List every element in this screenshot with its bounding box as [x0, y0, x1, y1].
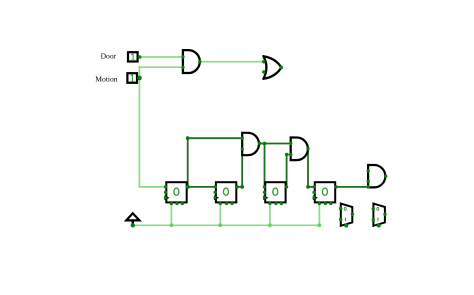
node AND4 out — [384, 175, 387, 178]
multiplexer MUX2 — [373, 204, 385, 226]
node AND4 in2 — [367, 180, 370, 183]
node FF4 Q — [335, 185, 338, 188]
bus junction dots — [170, 223, 322, 227]
svg-text:Door: Door — [101, 52, 117, 61]
wire FF2 Q stub — [237, 186, 242, 188]
wire junction down to FF3 D — [264, 144, 266, 188]
multiplexer MUX1 — [341, 204, 353, 226]
node OR1 out — [280, 66, 283, 69]
or gate U2 — [263, 56, 281, 79]
flip-flop pin dots — [164, 185, 333, 205]
flip-flop FF1 — [164, 182, 186, 202]
wire Motion corner to AND1 input2 — [139, 66, 183, 68]
wire FF4 Q to AND4 — [336, 186, 368, 188]
FF1 pins — [164, 185, 167, 188]
node AND3 out — [306, 147, 309, 150]
node FF2 Q corner — [240, 185, 244, 189]
node AND4 in1 — [367, 169, 370, 172]
wire power bus bottom — [133, 224, 320, 226]
flip-flop FF2 — [214, 182, 236, 202]
wire Door pin to AND1 input1 — [139, 56, 184, 58]
and gate U5 (C) — [368, 165, 385, 187]
node dots — [131, 55, 388, 227]
power V1 — [126, 213, 139, 224]
input pin Door — [128, 52, 138, 61]
node junction AND2out-FF3D — [263, 142, 267, 146]
wire AND1 output to OR1 input — [200, 61, 264, 63]
wire to FF1 D input — [139, 186, 166, 188]
FF2 pins — [214, 185, 217, 188]
node AND3 in2 corner — [285, 153, 288, 156]
node AND3 in1 — [289, 142, 292, 145]
wire vertical Motion bus down — [138, 67, 140, 187]
flip-flop FF3 — [263, 182, 285, 202]
and gate U1 top — [183, 50, 200, 73]
node AND1 in1 — [181, 55, 184, 58]
wire AND3 input2 stub — [287, 154, 291, 156]
node AND1 in2 — [181, 66, 184, 69]
node OR1 in2 — [262, 70, 265, 73]
node wire end at AND4 — [366, 185, 370, 189]
flip-flop FF4 — [313, 182, 335, 202]
node power out — [131, 223, 135, 227]
wire FF3 Q up — [286, 155, 288, 188]
FF3 pins — [263, 185, 266, 188]
node AND2 in1 — [241, 137, 244, 140]
wire FF1 Q up — [187, 138, 189, 187]
node Motion junction — [137, 76, 142, 81]
FF4 pins — [312, 185, 315, 188]
node OR1 in1 — [262, 60, 265, 63]
multiplexer pin dots — [339, 207, 387, 228]
node AND2 in2 — [241, 147, 244, 150]
node AND1 out — [198, 60, 201, 63]
wire to FF4 D — [308, 186, 314, 188]
svg-text:Motion: Motion — [95, 75, 118, 84]
wire to AND2 input1 — [188, 137, 243, 139]
wire riser FF2 enable — [219, 204, 221, 226]
node Door out — [138, 55, 142, 59]
wire riser FF3 enable — [269, 204, 271, 226]
wire FF2 Q up to AND2 input2 — [241, 149, 243, 187]
wire AND2 output to AND3 input1 — [260, 143, 291, 145]
wire riser FF4 enable — [318, 204, 320, 226]
node FF1 Q junction — [186, 185, 190, 189]
and gate U3 (A) — [242, 133, 259, 155]
node AND2 out junction — [258, 142, 261, 145]
wire riser FF1 enable — [170, 204, 172, 226]
input pin Motion — [127, 73, 137, 83]
node corner FF1Q-AND2 — [186, 136, 190, 140]
wire FF1 Q to FF2 D — [188, 186, 215, 188]
and gate U4 (B) — [291, 138, 308, 161]
node AND3out-FF4D corner — [306, 185, 310, 189]
wire AND3 output down — [307, 149, 309, 187]
